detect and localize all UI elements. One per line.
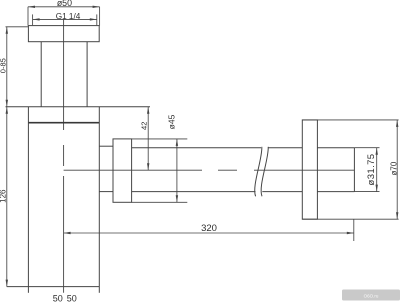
- dimension 0-85: extension line top: [6, 26, 29, 28]
- dimension 320: extension line right: [353, 219, 355, 241]
- svg-text:0-85: 0-85: [0, 58, 8, 73]
- arrow o31.75 bottom: [376, 185, 378, 192]
- svg-text:ø70: ø70: [389, 161, 398, 175]
- vertical centerline of trap: [63, 19, 65, 293]
- arrow 320 left: [64, 232, 71, 234]
- svg-text:126: 126: [0, 189, 8, 203]
- pipe top edge flange-to-end: [317, 147, 354, 149]
- dimension o50: dimension line: [28, 6, 100, 8]
- horizontal centerline of outlet pipe: [64, 169, 355, 171]
- dimension o31.75: extension line top: [354, 147, 379, 149]
- svg-text:ø31.75: ø31.75: [366, 154, 377, 186]
- dimension o45: extension line bottom: [132, 201, 188, 203]
- dimension o31.75: dimension line: [376, 148, 378, 192]
- extension stub below bottom left: [27, 287, 29, 293]
- svg-text:50: 50: [53, 294, 63, 302]
- dimension o50: extension line left: [27, 7, 29, 26]
- pipe top edge body-to-nut: [99, 145, 113, 147]
- arrow o70 bottom: [396, 212, 398, 219]
- arrow G1 left: [33, 18, 40, 20]
- pipe end cap: [353, 148, 355, 192]
- dimension o70: extension line top: [302, 119, 398, 121]
- body top edge with extension lines: [6, 106, 151, 108]
- dimension o70: extension line bottom: [302, 218, 398, 220]
- pipe bottom edge body-to-nut: [99, 191, 113, 193]
- svg-text:42: 42: [139, 122, 148, 130]
- arrow o50 right: [93, 6, 100, 8]
- arrow 0-85 top: [6, 27, 8, 34]
- dimension 126: dimension line: [6, 107, 8, 287]
- arrow 126 top: [6, 107, 8, 114]
- dimension o31.75: extension line bottom: [354, 191, 379, 193]
- arrow 126 bottom: [6, 280, 8, 287]
- dimension 0-85: dimension line: [6, 27, 8, 107]
- outlet nut: [113, 139, 132, 202]
- svg-text:50: 50: [67, 294, 77, 302]
- pipe top edge nut-to-break: [132, 147, 261, 149]
- pipe top edge break-to-flange: [268, 147, 302, 149]
- dimension o45: extension line top: [132, 138, 188, 140]
- arrow o31.75 top: [376, 148, 378, 155]
- arrow 42 top: [147, 107, 149, 114]
- body bottom edge / 50-50 dimension line: [7, 286, 100, 288]
- arrow G1 right: [90, 18, 97, 20]
- dimension o50: extension line right: [99, 7, 101, 26]
- svg-text:ø50: ø50: [57, 0, 72, 8]
- top flange (wall cap): [28, 26, 99, 42]
- break curve right: [261, 147, 268, 197]
- dimension G1 1/4: dimension line: [33, 18, 97, 20]
- pipe bottom edge break-to-flange: [262, 191, 302, 193]
- dimension G1 1/4: extension line right: [96, 14, 98, 25]
- svg-text:320: 320: [201, 223, 217, 234]
- arrow o45 top: [176, 139, 178, 146]
- svg-text:G1 1/4: G1 1/4: [56, 12, 81, 21]
- arrow 320 right: [347, 232, 354, 234]
- dimension o70: dimension line: [396, 120, 398, 219]
- extension stub below bottom right: [98, 287, 100, 293]
- svg-text:ø45: ø45: [167, 114, 177, 129]
- arrow o50 left: [28, 6, 35, 8]
- tailpipe left side: [40, 42, 42, 107]
- dimension o45: dimension line: [176, 139, 178, 202]
- pipe bottom edge flange-to-end: [317, 191, 354, 193]
- svg-text:O6O.ru: O6O.ru: [364, 293, 379, 298]
- break curve left: [255, 147, 262, 197]
- arrow 42 bottom: [147, 163, 149, 170]
- body ring bottom (thick): [28, 122, 99, 124]
- wall flange plate: [302, 120, 317, 219]
- pipe bottom edge nut-to-break: [132, 191, 256, 193]
- arrow o70 top: [396, 120, 398, 127]
- arrow o45 bottom: [176, 195, 178, 202]
- dimension 320: dimension line: [64, 232, 354, 234]
- watermark plate: [342, 290, 400, 301]
- tailpipe right side: [86, 42, 88, 107]
- body right wall: [98, 107, 100, 287]
- dimension 42: dimension line: [147, 107, 149, 170]
- body left wall: [27, 107, 29, 287]
- arrow 0-85 bottom: [6, 100, 8, 107]
- dimension G1 1/4: extension line left: [32, 14, 34, 25]
